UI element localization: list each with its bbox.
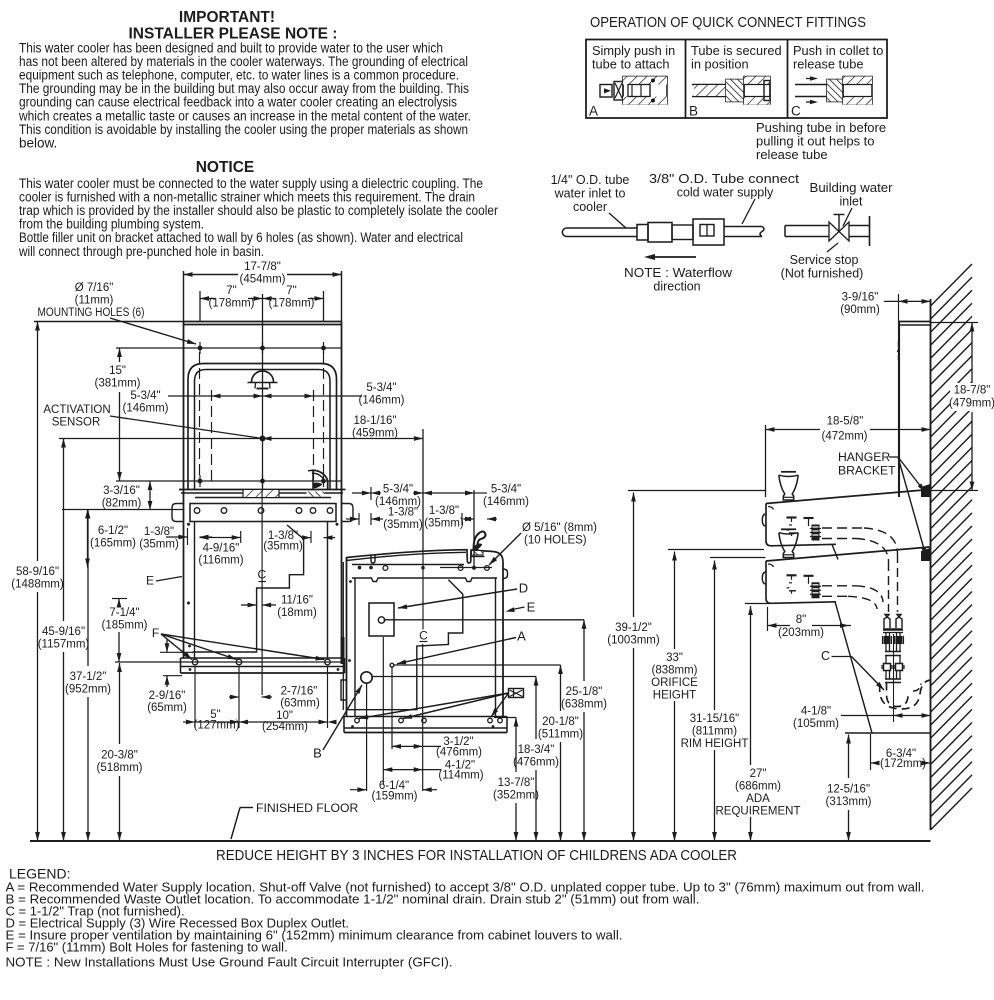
svg-text:12-5/16": 12-5/16" <box>827 783 870 795</box>
svg-text:(203mm): (203mm) <box>778 627 824 639</box>
svg-text:(1157mm): (1157mm) <box>38 638 90 650</box>
svg-text:(454mm): (454mm) <box>239 274 285 286</box>
svg-text:(172mm): (172mm) <box>880 758 926 770</box>
svg-text:37-1/2": 37-1/2" <box>70 671 107 683</box>
svg-text:NOTE : Waterflow: NOTE : Waterflow <box>624 266 733 280</box>
svg-text:REDUCE HEIGHT BY 3 INCHES FOR: REDUCE HEIGHT BY 3 INCHES FOR INSTALLATI… <box>216 847 737 864</box>
svg-text:5-3/4": 5-3/4" <box>366 382 396 394</box>
svg-text:(114mm): (114mm) <box>438 770 483 782</box>
svg-text:18-5/8": 18-5/8" <box>827 416 864 428</box>
svg-text:7-1/4": 7-1/4" <box>109 607 139 619</box>
svg-text:B: B <box>689 104 698 119</box>
svg-text:45-9/16": 45-9/16" <box>42 626 85 638</box>
svg-text:17-7/8": 17-7/8" <box>244 261 281 273</box>
svg-text:D: D <box>519 581 528 596</box>
svg-text:cold water supply: cold water supply <box>677 186 774 200</box>
svg-text:7": 7" <box>226 285 236 297</box>
svg-text:OPERATION OF QUICK CONNECT FIT: OPERATION OF QUICK CONNECT FITTINGS <box>590 14 866 31</box>
svg-text:(35mm): (35mm) <box>263 541 303 553</box>
svg-text:3-3/16": 3-3/16" <box>103 485 140 497</box>
svg-text:E: E <box>527 600 536 615</box>
svg-text:tube to attach: tube to attach <box>592 57 670 72</box>
svg-text:Ø 5/16" (8mm): Ø 5/16" (8mm) <box>522 522 597 534</box>
svg-text:13-7/8": 13-7/8" <box>498 777 535 789</box>
svg-text:C: C <box>257 568 266 582</box>
svg-text:(35mm): (35mm) <box>424 518 464 530</box>
svg-text:HANGER: HANGER <box>838 450 890 464</box>
svg-text:(952mm): (952mm) <box>65 683 111 695</box>
svg-text:(82mm): (82mm) <box>102 498 142 510</box>
svg-text:RIM HEIGHT: RIM HEIGHT <box>681 738 749 750</box>
svg-text:(811mm): (811mm) <box>692 726 737 738</box>
svg-text:C: C <box>419 629 428 643</box>
svg-text:(381mm): (381mm) <box>94 378 140 390</box>
svg-text:B: B <box>313 746 322 761</box>
svg-text:(479mm): (479mm) <box>949 398 994 410</box>
svg-text:SENSOR: SENSOR <box>52 417 101 429</box>
svg-text:Service stop: Service stop <box>790 253 859 267</box>
svg-text:Ø 7/16": Ø 7/16" <box>75 282 114 294</box>
svg-text:(63mm): (63mm) <box>280 698 320 710</box>
svg-text:7": 7" <box>286 285 296 297</box>
svg-text:(10 HOLES): (10 HOLES) <box>524 535 587 547</box>
svg-text:(11mm): (11mm) <box>75 295 114 307</box>
svg-text:This condition is avoidable by: This condition is avoidable by installin… <box>19 122 468 137</box>
svg-text:inlet: inlet <box>840 195 863 209</box>
svg-text:4-9/16": 4-9/16" <box>203 543 240 555</box>
svg-text:E: E <box>146 574 154 588</box>
svg-text:(638mm): (638mm) <box>561 698 607 710</box>
svg-text:ORIFICE: ORIFICE <box>651 677 698 689</box>
svg-text:NOTE : New Installations Must: NOTE : New Installations Must Use Ground… <box>6 955 453 970</box>
svg-text:(159mm): (159mm) <box>371 791 417 803</box>
svg-text:(472mm): (472mm) <box>821 431 867 443</box>
svg-text:31-15/16": 31-15/16" <box>690 713 739 725</box>
svg-text:F: F <box>152 626 159 640</box>
svg-text:2-9/16": 2-9/16" <box>149 690 186 702</box>
svg-text:11/16": 11/16" <box>281 595 313 607</box>
svg-text:direction: direction <box>653 280 700 294</box>
svg-text:A: A <box>517 629 526 644</box>
svg-text:(476mm): (476mm) <box>513 756 559 768</box>
svg-text:(178mm): (178mm) <box>208 298 254 310</box>
svg-text:water inlet to: water inlet to <box>554 187 626 201</box>
svg-text:15": 15" <box>109 365 126 377</box>
svg-text:1/4" O.D. tube: 1/4" O.D. tube <box>551 173 630 187</box>
svg-text:18-7/8": 18-7/8" <box>954 385 991 397</box>
svg-text:5-3/4": 5-3/4" <box>491 484 521 496</box>
svg-text:(127mm): (127mm) <box>193 720 239 732</box>
svg-text:release tube: release tube <box>756 147 828 162</box>
svg-text:ACTIVATION: ACTIVATION <box>43 404 110 416</box>
svg-text:(1003mm): (1003mm) <box>607 634 660 646</box>
svg-text:A: A <box>589 104 598 119</box>
svg-text:C: C <box>821 649 830 663</box>
svg-text:Building water: Building water <box>810 181 893 195</box>
svg-text:(459mm): (459mm) <box>352 428 398 440</box>
svg-text:(146mm): (146mm) <box>122 403 168 415</box>
svg-text:below.: below. <box>19 135 57 150</box>
svg-text:8": 8" <box>796 614 806 626</box>
svg-text:3-9/16": 3-9/16" <box>842 292 879 304</box>
svg-text:(686mm): (686mm) <box>735 780 781 792</box>
svg-text:(35mm): (35mm) <box>383 519 423 531</box>
svg-text:58-9/16": 58-9/16" <box>16 566 59 578</box>
svg-text:1-3/8": 1-3/8" <box>429 505 459 517</box>
svg-text:18-3/4": 18-3/4" <box>518 744 555 756</box>
svg-text:(146mm): (146mm) <box>483 496 529 508</box>
svg-text:ADA: ADA <box>746 793 770 805</box>
svg-text:(1488mm): (1488mm) <box>11 578 64 590</box>
svg-text:5-3/4": 5-3/4" <box>383 484 413 496</box>
svg-text:in position: in position <box>691 57 749 72</box>
svg-text:(35mm): (35mm) <box>139 539 179 551</box>
svg-text:25-1/8": 25-1/8" <box>566 686 603 698</box>
svg-text:REQUIREMENT: REQUIREMENT <box>716 805 801 817</box>
svg-text:(165mm): (165mm) <box>90 538 136 550</box>
svg-text:cooler: cooler <box>573 200 607 214</box>
svg-text:18-1/16": 18-1/16" <box>353 415 396 427</box>
svg-text:BRACKET: BRACKET <box>838 464 896 478</box>
svg-text:(518mm): (518mm) <box>96 762 142 774</box>
svg-text:FINISHED FLOOR: FINISHED FLOOR <box>256 801 358 815</box>
svg-text:(116mm): (116mm) <box>198 555 243 567</box>
svg-text:(185mm): (185mm) <box>101 620 147 632</box>
svg-text:20-3/8": 20-3/8" <box>101 749 138 761</box>
svg-text:(313mm): (313mm) <box>825 796 871 808</box>
svg-text:(Not furnished): (Not furnished) <box>781 267 864 281</box>
svg-text:20-1/8": 20-1/8" <box>542 716 579 728</box>
svg-text:(18mm): (18mm) <box>277 607 317 619</box>
svg-text:(352mm): (352mm) <box>493 789 539 801</box>
svg-text:(476mm): (476mm) <box>436 747 482 759</box>
svg-text:39-1/2": 39-1/2" <box>615 622 652 634</box>
svg-text:(105mm): (105mm) <box>793 718 839 730</box>
svg-text:(65mm): (65mm) <box>147 702 187 714</box>
svg-text:(838mm): (838mm) <box>651 664 697 676</box>
svg-text:4-1/8": 4-1/8" <box>801 706 831 718</box>
svg-text:3/8" O.D. Tube connect: 3/8" O.D. Tube connect <box>649 172 800 186</box>
svg-text:33": 33" <box>666 652 683 664</box>
svg-text:27": 27" <box>750 768 767 780</box>
svg-text:2-7/16": 2-7/16" <box>281 686 318 698</box>
svg-text:C: C <box>791 104 801 119</box>
svg-text:(90mm): (90mm) <box>840 304 880 316</box>
svg-text:HEIGHT: HEIGHT <box>653 689 696 701</box>
svg-text:will connect through pre-punch: will connect through pre-punched hole in… <box>18 244 264 259</box>
svg-text:(178mm): (178mm) <box>268 298 314 310</box>
svg-text:5-3/4": 5-3/4" <box>130 390 160 402</box>
svg-text:(511mm): (511mm) <box>538 728 583 740</box>
svg-text:(254mm): (254mm) <box>262 721 308 733</box>
svg-text:(146mm): (146mm) <box>358 395 404 407</box>
svg-text:MOUNTING HOLES (6): MOUNTING HOLES (6) <box>38 307 145 319</box>
svg-text:6-1/2": 6-1/2" <box>98 525 128 537</box>
svg-text:F = 7/16" (11mm) Bolt Holes fo: F = 7/16" (11mm) Bolt Holes for fastenin… <box>6 940 288 955</box>
svg-text:release tube: release tube <box>793 57 863 72</box>
svg-text:1-3/8": 1-3/8" <box>388 507 418 519</box>
svg-text:1-3/8": 1-3/8" <box>144 526 174 538</box>
svg-text:NOTICE: NOTICE <box>196 159 255 176</box>
svg-text:IMPORTANT!: IMPORTANT! <box>179 9 275 26</box>
